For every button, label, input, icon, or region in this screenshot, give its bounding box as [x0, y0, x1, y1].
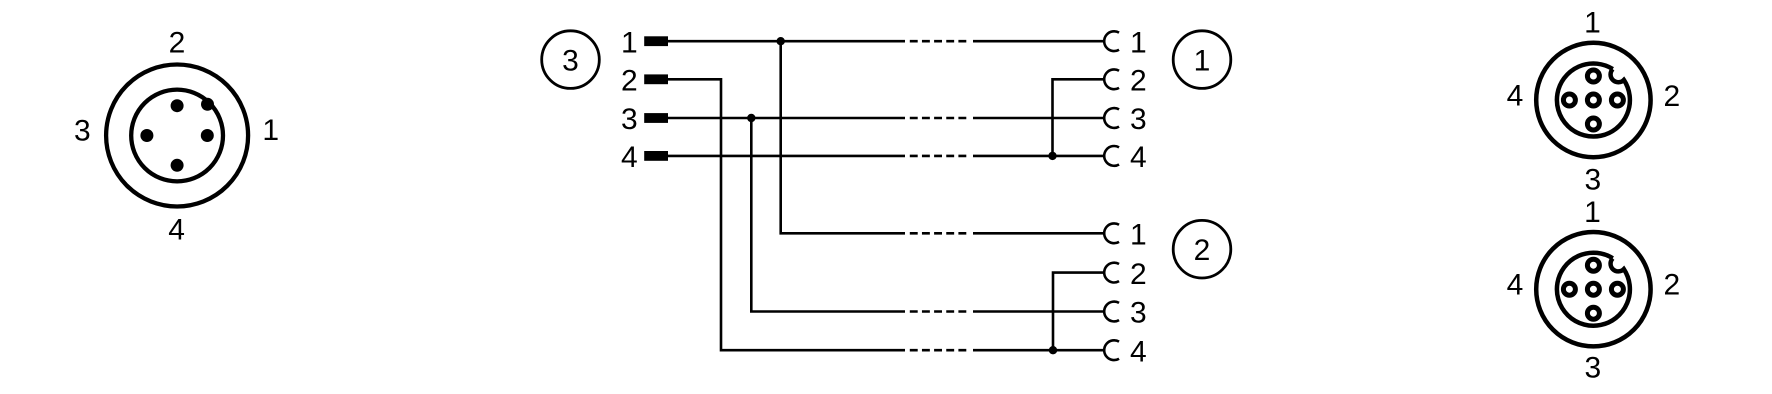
junction on wire 4 — [1048, 152, 1056, 160]
socket contact 2-1 — [1104, 223, 1119, 243]
wire: pin3 to socket1-3 (dashed middle) — [910, 117, 967, 120]
svg-text:1: 1 — [1194, 45, 1211, 78]
wire: branch up to socket1-2 — [1053, 79, 1105, 156]
svg-text:3: 3 — [1585, 352, 1602, 385]
socket 1 face: pin 3 hole (bottom) — [1587, 118, 1599, 130]
svg-text:2: 2 — [169, 27, 186, 60]
node 3 (circled) — [542, 31, 600, 89]
socket 2 face: inner circle with coding notch — [1557, 253, 1630, 326]
socket 2 face: pin 2 hole (right) — [1611, 283, 1623, 295]
wire: branch up to socket2-2 — [1053, 273, 1104, 351]
wire: socket2-1 solid right part — [973, 232, 1104, 235]
connector 3 face: pin 1 dot (right) — [201, 129, 214, 142]
terminal pin 3 (connector 3) — [644, 113, 668, 123]
junction on wire 1 — [777, 37, 785, 45]
svg-text:3: 3 — [1130, 103, 1147, 136]
wire: branch pin3 down to socket2-3 — [751, 118, 905, 312]
socket 1 face: inner circle with coding notch — [1557, 64, 1630, 137]
svg-text:4: 4 — [1507, 80, 1524, 113]
socket 1 face: center hole — [1587, 94, 1599, 106]
socket 2 face: pin 3 hole (bottom) — [1587, 307, 1599, 319]
socket 2 face: center hole — [1587, 283, 1599, 295]
connector 3 face: pin 2 dot (top) — [171, 99, 184, 112]
socket 1 face: pin 1 hole (top) — [1587, 70, 1599, 82]
wire: pin2 down to socket2-4 — [668, 79, 905, 350]
node 1 (circled) — [1173, 31, 1231, 89]
svg-text:4: 4 — [1130, 335, 1147, 368]
junction on wire 3 — [747, 114, 755, 122]
connector 3 face: pin 3 dot (left) — [140, 129, 153, 142]
junction on socket2-4 wire — [1049, 346, 1057, 354]
socket 2 face (M12 female): outer circle — [1536, 232, 1650, 346]
wire: pin1 to socket1-1 (dashed middle) — [910, 40, 967, 43]
svg-text:2: 2 — [621, 65, 638, 98]
socket 2 face: pin 4 hole (left) — [1563, 283, 1575, 295]
svg-text:2: 2 — [1130, 258, 1147, 291]
socket 1 face (M12 female): outer circle — [1536, 43, 1650, 157]
terminal pin 1 (connector 3) — [644, 36, 668, 46]
wire: pin4 to socket1-4 (solid right part) — [973, 155, 1104, 158]
socket contact 2-3 — [1104, 302, 1119, 322]
node 2 (circled) — [1173, 220, 1231, 278]
wire: socket2-1 dashed middle — [910, 232, 967, 235]
wire: pin3 to socket1-3 (solid left part) — [668, 117, 905, 120]
svg-text:1: 1 — [262, 114, 279, 147]
svg-text:4: 4 — [1130, 141, 1147, 174]
svg-text:2: 2 — [1130, 65, 1147, 98]
svg-text:1: 1 — [1584, 196, 1601, 229]
wire: pin1 to socket1-1 (solid left part) — [668, 40, 905, 43]
svg-text:3: 3 — [621, 103, 638, 136]
svg-text:4: 4 — [1507, 268, 1524, 301]
svg-text:1: 1 — [1584, 6, 1601, 39]
wire: branch pin1 down to socket2-1 — [781, 41, 905, 233]
svg-text:3: 3 — [1130, 297, 1147, 330]
wire: socket2-3 dashed middle — [910, 310, 967, 313]
wire: pin3 to socket1-3 (solid right part) — [973, 117, 1104, 120]
svg-text:1: 1 — [621, 26, 638, 59]
connector 3 face: inner circle — [131, 90, 223, 182]
socket 1 face: pin 2 hole (right) — [1611, 94, 1623, 106]
socket contact 1-3 — [1104, 108, 1119, 128]
socket contact 2-2 — [1104, 263, 1119, 283]
svg-text:2: 2 — [1663, 80, 1680, 113]
socket contact 2-4 — [1104, 340, 1119, 360]
wire: pin1 to socket1-1 (solid right part) — [973, 40, 1104, 43]
socket 1 face: pin 4 hole (left) — [1563, 94, 1575, 106]
svg-text:3: 3 — [562, 45, 579, 78]
svg-text:1: 1 — [1130, 219, 1147, 252]
connector 3 face (M8 male, left): outer circle — [106, 65, 248, 207]
wire: pin4 to socket1-4 (dashed middle) — [910, 155, 967, 158]
svg-text:4: 4 — [168, 214, 185, 247]
svg-text:3: 3 — [1585, 164, 1602, 197]
wire: pin4 to socket1-4 (solid left part) — [668, 155, 905, 158]
svg-text:2: 2 — [1194, 234, 1211, 267]
connector 3 face: pin 4 dot (bottom) — [171, 159, 184, 172]
svg-text:4: 4 — [621, 141, 638, 174]
svg-text:3: 3 — [74, 115, 91, 148]
socket 2 face: pin 1 hole (top) — [1587, 259, 1599, 271]
terminal pin 4 (connector 3) — [644, 151, 668, 161]
svg-text:1: 1 — [1130, 26, 1147, 59]
wire: socket2-3 solid right part — [973, 310, 1104, 313]
wire: socket2-4 solid right part — [973, 349, 1104, 352]
terminal pin 2 (connector 3) — [644, 74, 668, 84]
socket contact 1-1 — [1104, 31, 1119, 51]
svg-text:2: 2 — [1663, 268, 1680, 301]
wire: socket2-4 dashed middle — [910, 349, 967, 352]
socket contact 1-2 — [1104, 69, 1119, 89]
socket contact 1-4 — [1104, 146, 1119, 166]
connector 3 face: coding notch dot — [201, 98, 214, 111]
